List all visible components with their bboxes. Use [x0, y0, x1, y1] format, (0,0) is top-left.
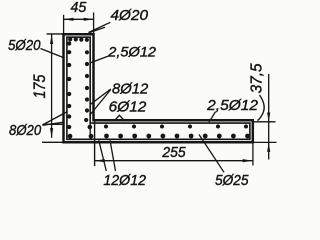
svg-text:5Ø25: 5Ø25	[215, 172, 249, 189]
dim 37,5 arrow up	[267, 143, 270, 152]
rebar junction corner dots	[88, 125, 94, 139]
dim 37,5 extension bottom	[254, 141, 277, 143]
rebar right column dots	[84, 50, 89, 122]
dim 255 arrow right	[243, 159, 253, 162]
label 8Ø20 leader b	[42, 122, 64, 125]
label 12Ø12 leader a	[99, 140, 107, 171]
dim 45 arrow right	[84, 18, 94, 21]
dim 37,5 extension top	[254, 121, 276, 123]
label 8Ø12 leader a	[90, 89, 111, 105]
rebar left column dots	[67, 41, 72, 138]
svg-text:175: 175	[31, 74, 49, 99]
svg-text:4Ø20: 4Ø20	[111, 7, 149, 24]
rebar flange top row 6Ø12 dots	[104, 125, 248, 129]
svg-text:37,5: 37,5	[248, 63, 265, 93]
label 5Ø25 leader	[199, 135, 224, 173]
dim 255 extension left	[94, 122, 96, 167]
dim 45 dimension line	[64, 18, 94, 20]
dim 175 extension mid	[43, 123, 63, 125]
svg-text:8Ø20: 8Ø20	[9, 123, 41, 139]
dim 45 arrow left	[64, 18, 74, 21]
svg-text:8Ø12: 8Ø12	[112, 81, 149, 98]
svg-text:45: 45	[71, 0, 87, 16]
dim 45 extension line left	[63, 15, 65, 33]
dim 175 dimension line	[51, 34, 53, 138]
label 4Ø20 leader a	[89, 22, 111, 32]
svg-text:255: 255	[161, 145, 186, 161]
dim 45 extension line right	[93, 13, 95, 34]
rebar top row 4Ø20 dots	[68, 37, 89, 42]
stirrup inner line	[67, 37, 250, 139]
svg-text:2,5Ø12: 2,5Ø12	[206, 97, 258, 114]
label 5Ø20 leader	[41, 49, 65, 59]
svg-text:6Ø12: 6Ø12	[109, 100, 147, 116]
label 8Ø20 leader a	[42, 112, 67, 126]
dim 175 extension top	[47, 33, 64, 35]
dim 255 dimension line	[95, 160, 253, 162]
label 12Ø12 leader b	[110, 140, 116, 171]
dim 255 arrow left	[95, 159, 105, 162]
label 2,5Ø12 upper leader	[90, 56, 109, 63]
label 4Ø20 leader b	[89, 27, 106, 33]
bottom edge extension left	[42, 141, 64, 143]
rebar flange bottom row 12Ø12 dots	[104, 134, 250, 139]
dim 255 extension right	[252, 144, 254, 166]
svg-text:5Ø20: 5Ø20	[8, 37, 41, 54]
label 8Ø12 leader b	[90, 90, 111, 116]
label 2,5Ø12 right leader	[209, 112, 216, 123]
svg-text:2,5Ø12: 2,5Ø12	[107, 43, 156, 59]
dim 175 arrow up	[50, 34, 53, 44]
concrete section outer outline (L-shape)	[64, 34, 253, 142]
dim 37,5 arrow down	[267, 113, 270, 122]
label 6Ø12 caret leader	[114, 115, 125, 121]
svg-text:12Ø12: 12Ø12	[103, 172, 146, 189]
label 2,5Ø12 right curved leader	[258, 95, 265, 121]
dim 175 arrow down	[50, 128, 53, 138]
stirrup junction segment	[89, 123, 91, 139]
dim 37,5 dimension line	[268, 74, 270, 160]
